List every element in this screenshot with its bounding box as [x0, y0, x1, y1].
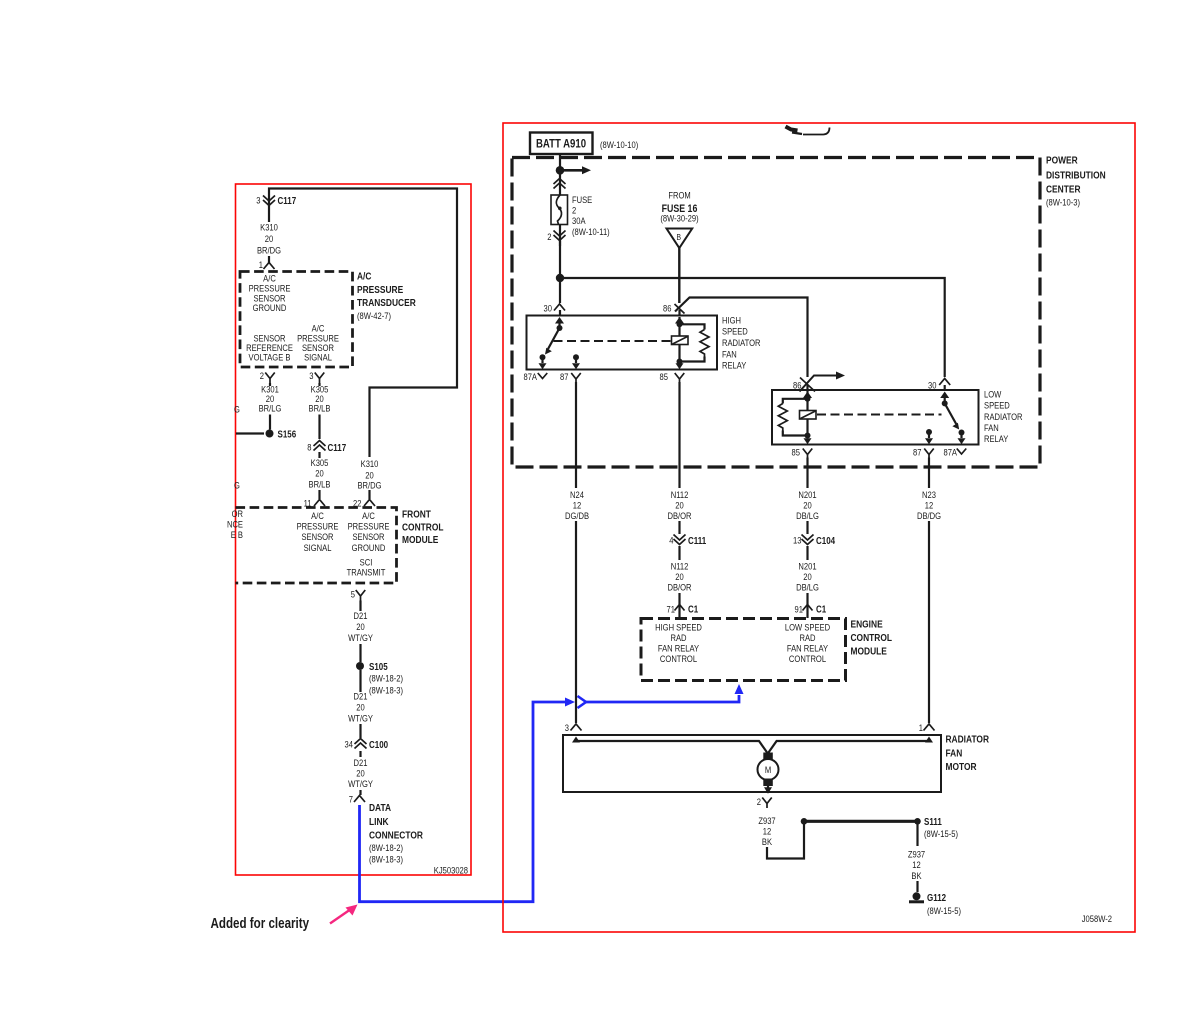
svg-text:N112: N112 [671, 489, 689, 500]
clipped text fragment G (lower) [234, 480, 240, 491]
scan artifact squiggle [786, 127, 798, 131]
label A/C PRESSURE TRANSDUCER (8W-42-7) [357, 271, 372, 283]
svg-text:POWER: POWER [1046, 155, 1078, 167]
HS relay pin 87 below [560, 371, 569, 382]
svg-text:(8W-18-3): (8W-18-3) [369, 685, 403, 696]
svg-text:BK: BK [911, 870, 921, 881]
svg-text:C1: C1 [688, 604, 698, 615]
svg-text:86: 86 [793, 380, 802, 391]
svg-text:12: 12 [925, 500, 934, 511]
svg-text:GROUND: GROUND [352, 542, 386, 553]
wire triangle to HS relay pin 86 [678, 248, 680, 303]
svg-text:KJ503028: KJ503028 [434, 865, 468, 876]
svg-text:RADIATOR: RADIATOR [722, 337, 761, 348]
svg-text:2: 2 [260, 370, 264, 381]
wire D21 lower [359, 751, 361, 757]
svg-text:DATA: DATA [369, 802, 391, 814]
wire label N24 12 DG/DB [570, 489, 584, 500]
svg-text:85: 85 [660, 371, 669, 382]
battery feed BATT A910 box [530, 133, 593, 155]
svg-text:D21: D21 [354, 610, 368, 621]
wire N23 from LS 87 to motor pin 1 [928, 458, 930, 489]
svg-text:3: 3 [309, 370, 313, 381]
LS relay coil box symbol [800, 411, 817, 420]
svg-text:N201: N201 [798, 489, 816, 500]
svg-text:FAN RELAY: FAN RELAY [658, 643, 699, 654]
fuse 16 feed triangle B [667, 229, 693, 249]
high speed radiator fan relay box [527, 316, 718, 370]
wire into transducer pin 1 [268, 256, 270, 263]
label HIGH SPEED RADIATOR FAN RELAY [722, 315, 741, 326]
transducer text: A/C PRESSURE SENSOR SIGNAL [312, 323, 325, 334]
svg-text:20: 20 [675, 571, 684, 582]
svg-text:(8W-10-11): (8W-10-11) [572, 226, 610, 237]
svg-text:71: 71 [667, 604, 676, 615]
svg-text:86: 86 [663, 303, 672, 314]
wire motor ground jog [767, 824, 804, 859]
LS relay pin 85 below [792, 447, 801, 458]
svg-text:30A: 30A [572, 215, 586, 226]
svg-text:SIGNAL: SIGNAL [304, 542, 332, 553]
wire N112 lower [678, 546, 680, 560]
ECM text LOW SPEED RAD FAN RELAY CONTROL [785, 622, 830, 633]
svg-text:2: 2 [757, 796, 761, 807]
connector C1 pin 91 [795, 604, 804, 615]
label RADIATOR FAN MOTOR [946, 734, 990, 746]
LS relay 87A contact [959, 430, 965, 436]
svg-text:(8W-30-29): (8W-30-29) [660, 213, 698, 224]
wire to S156 [269, 415, 271, 430]
svg-text:MODULE: MODULE [402, 534, 438, 546]
LS relay switch armature [945, 403, 957, 424]
svg-text:N201: N201 [798, 561, 816, 572]
svg-text:CONNECTOR: CONNECTOR [369, 830, 423, 842]
connector chevrons below BATT [554, 179, 566, 185]
svg-text:1: 1 [919, 722, 923, 733]
svg-text:Z937: Z937 [908, 849, 925, 860]
svg-text:BK: BK [762, 836, 772, 847]
svg-text:N24: N24 [570, 489, 584, 500]
blue added wire from DLC pin 7 to ECM [360, 702, 566, 902]
connector C1 pin 71 [667, 604, 676, 615]
FCM pin 11 [304, 498, 312, 509]
label LOW SPEED RADIATOR FAN RELAY [984, 389, 1002, 400]
HS relay coil dots [677, 321, 683, 327]
svg-text:20: 20 [356, 621, 365, 632]
svg-text:PRESSURE: PRESSURE [357, 284, 403, 296]
svg-text:FAN: FAN [984, 422, 999, 433]
svg-text:S105: S105 [369, 661, 388, 672]
wire down to HS relay pin 30 [559, 278, 561, 303]
svg-text:RAD: RAD [799, 632, 815, 643]
wire D21 upper [359, 601, 361, 612]
HS relay pin30 contact arrow [555, 317, 564, 324]
wire N112 from HS 85 [678, 382, 680, 488]
wire label K301 20 BR/LG [261, 384, 279, 395]
fuse 2 30A symbol [551, 195, 568, 225]
connector C100 [345, 739, 354, 750]
right diagram frame (red border, J058W-2 sheet) [503, 123, 1135, 932]
HS relay coil wire through [678, 317, 680, 362]
svg-text:(8W-18-3): (8W-18-3) [369, 854, 403, 865]
svg-text:LINK: LINK [369, 816, 389, 828]
svg-text:BR/LB: BR/LB [309, 479, 331, 490]
svg-text:S156: S156 [278, 429, 297, 440]
svg-text:(8W-10-10): (8W-10-10) [600, 139, 638, 150]
svg-text:20: 20 [675, 500, 684, 511]
LS relay pin85 arrow [806, 436, 808, 439]
svg-text:(8W-18-2): (8W-18-2) [369, 673, 403, 684]
svg-text:LOW: LOW [984, 389, 1002, 400]
transducer pin 2 [260, 370, 264, 381]
wire K305 lower [318, 452, 320, 458]
svg-text:12: 12 [573, 500, 582, 511]
svg-text:BATT A910: BATT A910 [536, 138, 586, 151]
svg-text:BR/DG: BR/DG [257, 245, 281, 256]
LS relay coil loop [783, 399, 808, 436]
svg-text:G: G [234, 404, 240, 415]
junction dot to low-speed relay feed [556, 274, 564, 282]
sheet code J058W-2 [1082, 913, 1112, 924]
svg-text:A/C: A/C [362, 510, 375, 521]
wire S111 down [916, 824, 918, 846]
svg-text:20: 20 [803, 571, 812, 582]
svg-text:BR/DG: BR/DG [357, 480, 381, 491]
svg-text:WT/GY: WT/GY [348, 632, 373, 643]
wire label N112 20 DB/OR [671, 489, 689, 500]
svg-text:CONTROL: CONTROL [660, 653, 697, 664]
HS relay switch armature [548, 328, 560, 349]
svg-text:BR/LB: BR/LB [309, 403, 331, 414]
svg-text:FUSE: FUSE [572, 194, 592, 205]
svg-text:FROM: FROM [668, 190, 690, 201]
motor internal feed wires [572, 737, 580, 743]
svg-text:13: 13 [793, 535, 802, 546]
svg-text:C100: C100 [369, 739, 388, 750]
svg-text:MOTOR: MOTOR [946, 761, 977, 773]
FCM pin 5 [351, 589, 355, 600]
junction dot + feed arrow right [556, 166, 565, 175]
wire label N201 20 DB/LG [798, 489, 816, 500]
engine control module dashed box [641, 619, 846, 681]
svg-text:5: 5 [351, 589, 355, 600]
HS relay coil box symbol [672, 336, 689, 345]
svg-text:K310: K310 [260, 222, 278, 233]
motor pin 2 [757, 796, 761, 807]
FCM pin 22 [353, 498, 362, 509]
svg-text:SPEED: SPEED [984, 400, 1010, 411]
svg-text:MODULE: MODULE [851, 646, 887, 658]
svg-text:D21: D21 [354, 757, 368, 768]
wire stub pin2 [269, 383, 271, 386]
connector C117 (pin 8) [307, 442, 311, 453]
wire feed across to LS relay pin 30 [560, 278, 945, 377]
svg-text:7: 7 [349, 794, 353, 805]
motor pin 3 [565, 722, 569, 733]
HS relay 87 contact [573, 354, 579, 360]
low speed radiator fan relay box [772, 390, 979, 445]
svg-text:C111: C111 [688, 535, 706, 546]
transducer pin 3 [309, 370, 313, 381]
svg-text:WT/GY: WT/GY [348, 713, 373, 724]
ground G112 [913, 892, 921, 900]
label ENGINE CONTROL MODULE [851, 619, 883, 631]
splice S105 [356, 662, 364, 670]
svg-text:(8W-18-2): (8W-18-2) [369, 842, 403, 853]
svg-text:D21: D21 [354, 691, 368, 702]
svg-text:30: 30 [544, 303, 553, 314]
motor pin 1 [919, 722, 923, 733]
wire: C117 pin3 top run right and down to FCM pin 22 [269, 189, 457, 458]
svg-text:B: B [677, 232, 682, 242]
FCM text SCI TRANSMIT [360, 557, 373, 568]
A/C pressure transducer dashed box [240, 272, 353, 368]
front control module dashed box [236, 508, 397, 584]
svg-text:2: 2 [572, 205, 576, 216]
HS relay switch common dot [557, 325, 563, 331]
svg-text:HIGH SPEED: HIGH SPEED [655, 622, 702, 633]
svg-text:FAN: FAN [722, 348, 737, 359]
svg-text:30: 30 [928, 380, 937, 391]
LS relay pin 87 below [913, 447, 922, 458]
svg-text:SENSOR: SENSOR [301, 531, 333, 542]
svg-text:(8W-42-7): (8W-42-7) [357, 310, 391, 321]
wire label N23 12 DB/DG [922, 489, 936, 500]
svg-text:DB/OR: DB/OR [667, 510, 691, 521]
HS relay pin 30 [544, 303, 553, 314]
svg-text:91: 91 [795, 604, 804, 615]
svg-text:BR/LG: BR/LG [259, 403, 282, 414]
svg-text:20: 20 [803, 500, 812, 511]
wire label K310 20 BR/DG (top) [260, 222, 278, 233]
splice S111 [914, 818, 921, 825]
connector C104 [793, 535, 802, 546]
pin 1 of A/C pressure transducer [259, 259, 263, 270]
svg-text:85: 85 [792, 447, 801, 458]
svg-text:DG/DB: DG/DB [565, 510, 589, 521]
svg-text:E B: E B [231, 529, 243, 540]
svg-text:S111: S111 [924, 816, 942, 827]
label POWER DISTRIBUTION CENTER (8W-10-3) [1046, 155, 1078, 167]
svg-text:87: 87 [913, 447, 922, 458]
svg-text:CENTER: CENTER [1046, 184, 1081, 196]
svg-text:SPEED: SPEED [722, 326, 748, 337]
svg-text:RADIATOR: RADIATOR [946, 734, 990, 746]
LS relay pin 86 X junction and output arrow [793, 380, 802, 391]
HS relay 87A contact [540, 354, 546, 360]
FCM text A/C PRESSURE SENSOR SIGNAL [311, 510, 324, 521]
LS relay pin 87A below [943, 447, 957, 458]
LS relay coil wire through [806, 392, 808, 437]
svg-text:87: 87 [560, 371, 569, 382]
svg-text:CONTROL: CONTROL [789, 653, 826, 664]
svg-text:K310: K310 [361, 458, 379, 469]
label FROM FUSE 16 (8W-30-29) [668, 190, 690, 201]
svg-text:12: 12 [763, 826, 772, 837]
wire D21 middle [359, 670, 361, 692]
wire N201 lower [806, 546, 808, 560]
wire K305 upper [318, 383, 320, 386]
svg-text:(8W-15-5): (8W-15-5) [927, 905, 961, 916]
svg-text:RELAY: RELAY [722, 360, 747, 371]
svg-text:LOW SPEED: LOW SPEED [785, 622, 830, 633]
fuse pin 2 connector [547, 231, 551, 242]
svg-text:CONTROL: CONTROL [402, 522, 444, 534]
svg-text:OR: OR [232, 508, 243, 519]
svg-text:8: 8 [307, 442, 311, 453]
svg-text:G112: G112 [927, 892, 946, 903]
svg-text:CONTROL: CONTROL [851, 632, 893, 644]
clipped text fragment G (upper) [234, 404, 240, 415]
svg-text:FAN RELAY: FAN RELAY [787, 643, 828, 654]
HS relay pin 86 X junction and branch to LS relay [675, 298, 808, 378]
svg-text:RADIATOR: RADIATOR [984, 411, 1023, 422]
svg-text:C117: C117 [278, 195, 297, 206]
svg-text:RELAY: RELAY [984, 433, 1009, 444]
sheet code KJ503028 [434, 865, 468, 876]
DLC pin 7 [359, 790, 361, 795]
svg-text:DISTRIBUTION: DISTRIBUTION [1046, 170, 1106, 182]
svg-text:(8W-10-3): (8W-10-3) [1046, 197, 1080, 208]
svg-text:VOLTAGE B: VOLTAGE B [249, 352, 291, 363]
svg-text:2: 2 [547, 231, 551, 242]
HS relay pin85 arrow [678, 362, 680, 364]
svg-text:DB/OR: DB/OR [667, 582, 691, 593]
svg-text:C104: C104 [816, 535, 835, 546]
splice S156 [266, 430, 274, 438]
LS relay dashed actuator link [817, 414, 942, 416]
LS relay pin30 contact arrow [940, 392, 949, 399]
svg-text:GROUND: GROUND [253, 302, 287, 313]
wire label Z937 12 BK (motor) [758, 815, 775, 826]
svg-text:4: 4 [669, 535, 673, 546]
fuse labels FUSE 2 30A (8W-10-11) [572, 194, 592, 205]
HS relay dashed actuator link [554, 340, 671, 342]
svg-text:ENGINE: ENGINE [851, 619, 883, 631]
svg-text:N23: N23 [922, 489, 936, 500]
svg-text:N112: N112 [671, 561, 689, 572]
svg-text:87A: 87A [943, 447, 957, 458]
splice bus to S111 [804, 820, 918, 823]
wire N24 from HS 87 to motor pin 3 [575, 382, 577, 488]
svg-text:HIGH: HIGH [722, 315, 741, 326]
svg-text:PRESSURE: PRESSURE [348, 521, 390, 532]
svg-text:FRONT: FRONT [402, 508, 431, 520]
wire label K310 20 BR/DG (lower) [361, 458, 379, 469]
label FRONT CONTROL MODULE [402, 508, 431, 520]
motor M symbol [763, 753, 773, 761]
svg-text:J058W-2: J058W-2 [1082, 913, 1112, 924]
power distribution center dashed box [512, 158, 1040, 468]
svg-text:SIGNAL: SIGNAL [304, 352, 332, 363]
annotation Added for clearity [211, 915, 310, 932]
svg-text:M: M [765, 764, 771, 775]
label DATA LINK CONNECTOR [369, 802, 391, 814]
left diagram frame (red border, KJ503028 sheet) [236, 184, 472, 875]
svg-text:TRANSDUCER: TRANSDUCER [357, 297, 416, 309]
svg-text:C1: C1 [816, 604, 826, 615]
transducer text: SENSOR REFERENCE VOLTAGE B [253, 333, 285, 344]
svg-text:20: 20 [356, 702, 365, 713]
HS relay pin 87A below [523, 371, 537, 382]
svg-text:A/C: A/C [311, 510, 324, 521]
wire fuse to junction [559, 241, 561, 278]
radiator fan motor box [563, 735, 941, 792]
svg-text:12: 12 [912, 859, 921, 870]
svg-text:3: 3 [565, 722, 569, 733]
svg-text:TRANSMIT: TRANSMIT [347, 567, 386, 578]
LS relay pin 30 chevron [928, 380, 937, 391]
svg-text:RAD: RAD [670, 632, 686, 643]
HS relay pin 85 below [660, 371, 669, 382]
svg-text:Added for clearity: Added for clearity [211, 915, 310, 932]
FCM text A/C PRESSURE SENSOR GROUND [362, 510, 375, 521]
svg-text:NCE: NCE [227, 519, 243, 530]
transducer text: A/C PRESSURE SENSOR GROUND [263, 273, 276, 284]
svg-text:WT/GY: WT/GY [348, 778, 373, 789]
FCM clipped text OR NCE E B [232, 508, 243, 519]
svg-text:34: 34 [345, 739, 354, 750]
svg-text:K305: K305 [311, 457, 329, 468]
svg-text:Z937: Z937 [758, 815, 775, 826]
wire N201 from LS 85 [806, 458, 808, 489]
svg-text:DB/LG: DB/LG [796, 582, 819, 593]
svg-text:DB/DG: DB/DG [917, 510, 941, 521]
svg-text:1: 1 [259, 259, 263, 270]
LS relay 87 contact [926, 429, 932, 435]
svg-text:PRESSURE: PRESSURE [297, 521, 339, 532]
ECM text HIGH SPEED RAD FAN RELAY CONTROL [655, 622, 702, 633]
svg-text:FAN: FAN [946, 748, 963, 760]
svg-text:DB/LG: DB/LG [796, 510, 819, 521]
LS relay switch common dot [942, 400, 948, 406]
wire from BATT down [559, 154, 561, 168]
connector C111 [669, 535, 673, 546]
svg-text:20: 20 [265, 233, 274, 244]
svg-text:A/C: A/C [357, 271, 372, 283]
HS relay coil loop [680, 324, 705, 361]
svg-text:G: G [234, 480, 240, 491]
LS relay coil dots [805, 396, 811, 402]
svg-text:C117: C117 [328, 442, 347, 453]
svg-text:87A: 87A [523, 371, 537, 382]
svg-text:3: 3 [256, 195, 260, 206]
connector C117 (pin 3, top) [256, 195, 260, 206]
svg-text:(8W-15-5): (8W-15-5) [924, 828, 958, 839]
svg-text:20: 20 [356, 768, 365, 779]
splice junction dot left [801, 818, 808, 825]
svg-text:20: 20 [315, 468, 324, 479]
svg-text:SENSOR: SENSOR [352, 531, 384, 542]
